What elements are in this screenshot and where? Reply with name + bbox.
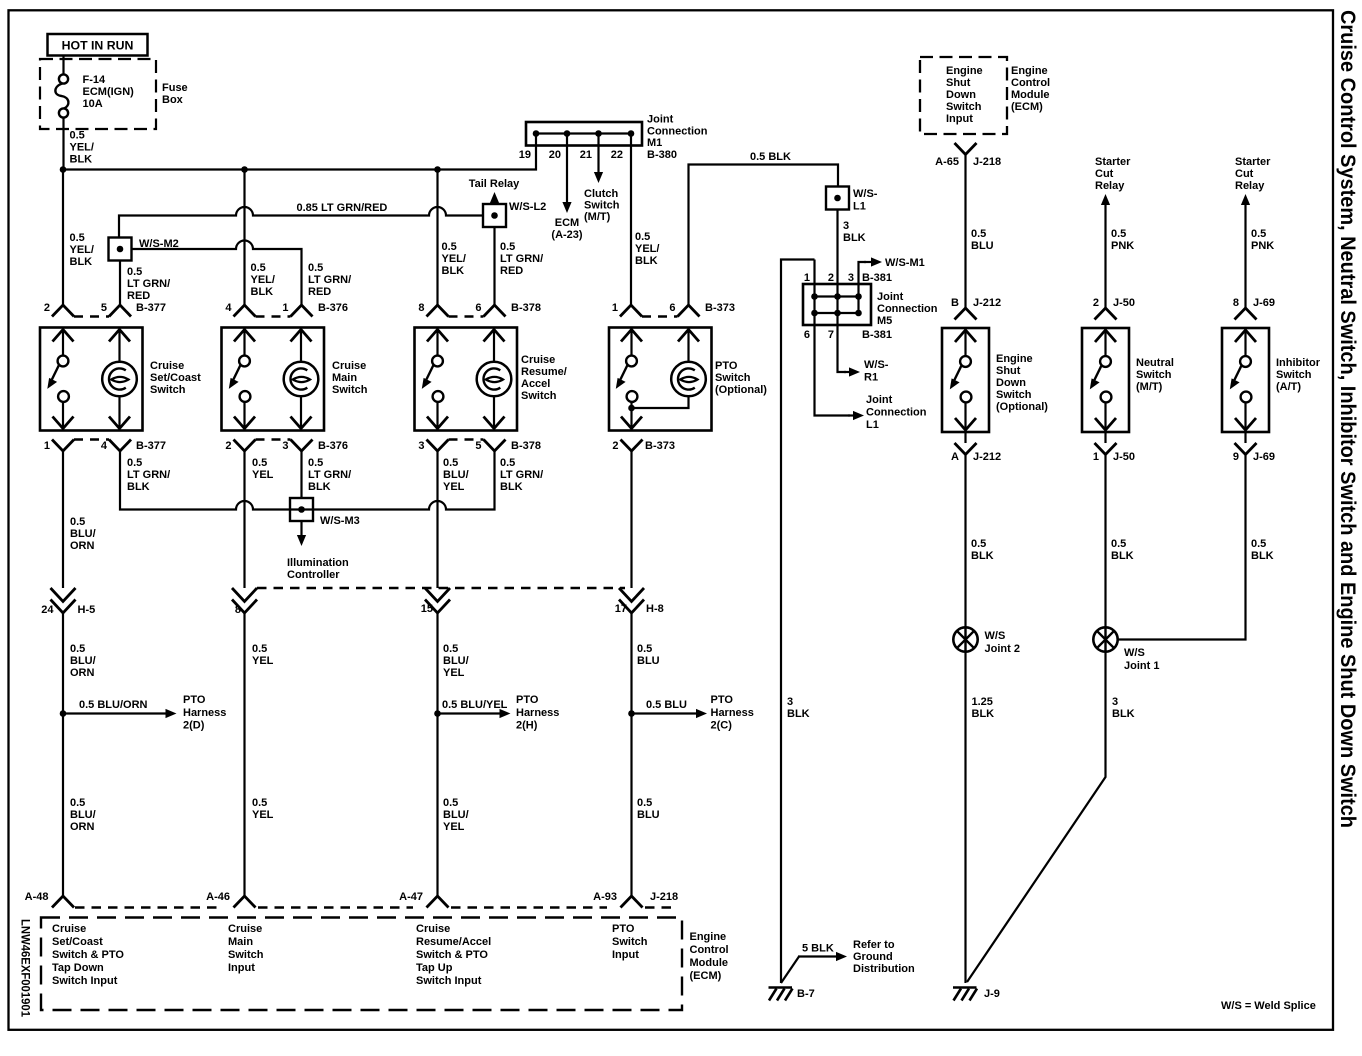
svg-text:RED: RED	[308, 286, 331, 298]
wire joint 1 to ground J-9, 3 BLK	[967, 652, 1106, 983]
wire W/S-L2 to B-378 pin 6, 0.5 LT GRN/RED	[493, 227, 495, 305]
svg-text:BLK: BLK	[1111, 550, 1134, 562]
cruise set/coast switch	[40, 328, 143, 431]
svg-text:A-46: A-46	[206, 891, 230, 903]
svg-text:Joint: Joint	[866, 394, 893, 406]
svg-text:PTO: PTO	[612, 923, 635, 935]
M5 pin 3 to W/S-M1	[855, 293, 862, 300]
svg-text:B-376: B-376	[318, 302, 348, 314]
svg-text:ORN: ORN	[70, 667, 95, 679]
svg-text:J-218: J-218	[973, 156, 1001, 168]
svg-text:LT GRN/: LT GRN/	[127, 469, 170, 481]
svg-text:24: 24	[41, 604, 54, 616]
svg-text:17: 17	[615, 603, 627, 615]
svg-text:0.5: 0.5	[308, 457, 323, 469]
svg-text:Connection: Connection	[866, 407, 927, 419]
svg-text:5 BLK: 5 BLK	[802, 943, 834, 955]
svg-text:0.5: 0.5	[127, 266, 142, 278]
svg-text:0.5: 0.5	[637, 797, 652, 809]
svg-text:2: 2	[612, 440, 618, 452]
svg-text:PNK: PNK	[1111, 240, 1134, 252]
svg-text:A-93: A-93	[593, 891, 617, 903]
wire A J-212 to W/S joint 2, 0.5 BLK	[964, 455, 966, 628]
wire W/S-M2 to B-376 pin 1, 0.5 LT GRN/RED	[132, 241, 302, 306]
svg-text:Module: Module	[1011, 89, 1050, 101]
joint connection M5 B-381	[803, 284, 871, 325]
svg-text:ECM: ECM	[555, 217, 579, 229]
svg-text:(A-23): (A-23)	[551, 229, 583, 241]
svg-text:0.5: 0.5	[308, 262, 323, 274]
svg-text:PTO: PTO	[715, 360, 738, 372]
svg-text:0.5: 0.5	[500, 457, 515, 469]
svg-text:Harness: Harness	[711, 707, 754, 719]
svg-text:J-50: J-50	[1113, 451, 1135, 463]
svg-text:BLK: BLK	[972, 708, 995, 720]
svg-text:BLU/: BLU/	[70, 528, 96, 540]
svg-text:(M/T): (M/T)	[584, 211, 611, 223]
fuse box (dashed)	[40, 59, 156, 129]
svg-text:(ECM): (ECM)	[690, 970, 722, 982]
connector B-377 pins 2,5 (top)	[52, 305, 74, 317]
svg-text:BLK: BLK	[635, 255, 658, 267]
svg-text:Tap Up: Tap Up	[416, 962, 453, 974]
wire B-377 pin 1 to H-5, 0.5 BLU/ORN	[62, 451, 64, 588]
svg-text:22: 22	[611, 149, 623, 161]
svg-text:J-9: J-9	[984, 988, 1000, 1000]
svg-text:YEL: YEL	[443, 481, 465, 493]
svg-text:2(H): 2(H)	[516, 720, 538, 732]
connector B-378 pins 3,5 (bottom)	[427, 440, 449, 452]
svg-text:B-373: B-373	[645, 440, 675, 452]
svg-text:Resume/Accel: Resume/Accel	[416, 936, 491, 948]
svg-text:Relay: Relay	[1095, 180, 1125, 192]
wire bus to B-377 pin 2, 0.5 YEL/BLK	[62, 170, 64, 306]
wire 17/H-8 to A-93, 0.5 BLU	[630, 613, 632, 896]
ground B-7	[769, 986, 793, 989]
svg-text:YEL/: YEL/	[635, 243, 659, 255]
M1 pin 22	[628, 130, 635, 137]
svg-text:Cruise: Cruise	[416, 923, 450, 935]
weld splice W/S-L1	[826, 187, 849, 210]
wire 1 J-50 to W/S joint 1, 0.5 BLK	[1104, 455, 1106, 628]
svg-text:A-47: A-47	[399, 891, 423, 903]
weld splice W/S-M3	[290, 498, 313, 521]
svg-text:J-212: J-212	[973, 451, 1001, 463]
svg-text:1: 1	[282, 302, 288, 314]
svg-text:YEL: YEL	[252, 469, 274, 481]
svg-text:YEL: YEL	[252, 809, 274, 821]
svg-text:BLK: BLK	[500, 481, 523, 493]
svg-text:Tail Relay: Tail Relay	[469, 178, 520, 190]
svg-text:Fuse: Fuse	[162, 82, 188, 94]
svg-text:B-376: B-376	[318, 440, 348, 452]
svg-text:0.85 LT GRN/RED: 0.85 LT GRN/RED	[297, 202, 388, 214]
svg-text:Module: Module	[690, 957, 729, 969]
PTO switch (optional)	[609, 328, 712, 431]
svg-text:1: 1	[612, 302, 618, 314]
svg-text:0.5: 0.5	[70, 232, 85, 244]
svg-text:1: 1	[804, 272, 810, 284]
svg-text:B-377: B-377	[136, 440, 166, 452]
engine shut down switch (optional)	[942, 328, 989, 432]
branch 5 BLK refer to ground distribution	[781, 957, 799, 984]
svg-text:0.5: 0.5	[1251, 228, 1266, 240]
svg-text:BLU/: BLU/	[443, 655, 469, 667]
weld splice joint 1	[1093, 627, 1117, 651]
svg-text:Switch: Switch	[332, 384, 368, 396]
svg-text:Starter: Starter	[1095, 156, 1131, 168]
svg-text:Switch: Switch	[715, 372, 751, 384]
svg-text:Switch & PTO: Switch & PTO	[416, 949, 488, 961]
svg-text:Engine: Engine	[1011, 65, 1048, 77]
svg-text:Switch Input: Switch Input	[52, 975, 118, 987]
svg-text:RED: RED	[127, 290, 150, 302]
svg-text:BLK: BLK	[442, 265, 465, 277]
svg-text:J-69: J-69	[1253, 451, 1275, 463]
svg-text:Main: Main	[332, 372, 357, 384]
svg-text:(Optional): (Optional)	[996, 401, 1048, 413]
svg-text:YEL/: YEL/	[70, 142, 94, 154]
svg-text:RED: RED	[500, 265, 523, 277]
diagram title (vertical)	[1336, 10, 1359, 828]
connector 9 J-69	[1244, 432, 1246, 443]
weld splice W/S-L2	[483, 204, 506, 227]
junction node bus/B-376	[241, 166, 248, 173]
svg-text:2: 2	[828, 272, 834, 284]
joint connection M1 B-380	[526, 122, 642, 146]
svg-text:Inhibitor: Inhibitor	[1276, 357, 1321, 369]
svg-text:B-378: B-378	[511, 302, 541, 314]
svg-text:Control: Control	[690, 944, 729, 956]
svg-text:Distribution: Distribution	[853, 963, 915, 975]
svg-text:BLK: BLK	[971, 550, 994, 562]
wire fuse to bus, 0.5 YEL/BLK	[62, 118, 64, 170]
svg-text:5: 5	[101, 302, 107, 314]
M1 pin 19	[533, 130, 540, 137]
svg-text:ORN: ORN	[70, 540, 95, 552]
svg-text:W/S: W/S	[985, 630, 1006, 642]
svg-text:M5: M5	[877, 315, 892, 327]
wire B-378 pin 3 to connector 15, 0.5 BLU/YEL	[436, 451, 438, 588]
svg-text:W/S-M1: W/S-M1	[885, 257, 925, 269]
svg-text:8: 8	[1233, 297, 1239, 309]
connector B J-212	[955, 308, 977, 320]
svg-text:0.5: 0.5	[443, 457, 458, 469]
svg-text:Connection: Connection	[647, 125, 708, 137]
svg-text:J-212: J-212	[973, 297, 1001, 309]
svg-text:Switch: Switch	[946, 101, 982, 113]
svg-text:B-381: B-381	[862, 272, 892, 284]
svg-text:10A: 10A	[83, 98, 103, 110]
svg-text:J-69: J-69	[1253, 297, 1275, 309]
svg-text:BLK: BLK	[787, 708, 810, 720]
svg-text:0.5: 0.5	[70, 797, 85, 809]
svg-text:YEL: YEL	[252, 655, 274, 667]
wire 9 J-69 to W/S joint 1, 0.5 BLK	[1118, 455, 1246, 640]
svg-text:0.5: 0.5	[252, 797, 267, 809]
svg-text:YEL/: YEL/	[251, 274, 275, 286]
svg-text:Controller: Controller	[287, 569, 340, 581]
svg-text:W/S: W/S	[1124, 647, 1145, 659]
svg-text:Engine: Engine	[946, 65, 983, 77]
svg-text:Switch: Switch	[1136, 369, 1172, 381]
connector A J-212	[964, 432, 966, 443]
junction node at fuse drop	[60, 166, 67, 173]
svg-text:Joint: Joint	[877, 291, 904, 303]
svg-text:Switch: Switch	[612, 936, 648, 948]
svg-text:3: 3	[1112, 696, 1118, 708]
svg-text:Cut: Cut	[1095, 168, 1114, 180]
svg-text:2: 2	[44, 302, 50, 314]
svg-text:0.5 BLU/YEL: 0.5 BLU/YEL	[442, 699, 508, 711]
svg-text:LT GRN/: LT GRN/	[127, 278, 170, 290]
wire 0.5 BLK to W/S-L1	[689, 165, 839, 306]
svg-text:Input: Input	[228, 962, 255, 974]
svg-text:(M/T): (M/T)	[1136, 381, 1163, 393]
wire B-377 pin 4 / B-378 pin 5 branch line	[120, 451, 495, 510]
svg-text:A: A	[951, 451, 959, 463]
svg-text:19: 19	[519, 149, 531, 161]
dashed connector link row	[75, 906, 671, 909]
svg-text:PNK: PNK	[1251, 240, 1274, 252]
document code (vertical)	[19, 919, 33, 1017]
wire W/S-M2 to B-377 pin 5, 0.5 LT GRN/RED	[119, 261, 121, 306]
svg-text:B-377: B-377	[136, 302, 166, 314]
svg-text:BLU/: BLU/	[70, 655, 96, 667]
svg-text:Cruise: Cruise	[332, 360, 366, 372]
harness connector 24 H-5	[51, 588, 76, 602]
connector B-377 pins 1,4 (bottom)	[52, 440, 74, 452]
svg-text:0.5: 0.5	[70, 643, 85, 655]
svg-text:Illumination: Illumination	[287, 557, 349, 569]
svg-text:Down: Down	[946, 89, 976, 101]
svg-text:BLK: BLK	[127, 481, 150, 493]
wire 8 to A-46, 0.5 YEL	[243, 613, 245, 896]
svg-text:LT GRN/: LT GRN/	[308, 274, 351, 286]
svg-text:L1: L1	[866, 419, 879, 431]
starter cut relay (inhibitor)	[1244, 205, 1246, 308]
harness connector 17 H-8	[619, 588, 644, 602]
connector A-93 J-218	[621, 896, 643, 908]
svg-text:A-48: A-48	[25, 891, 49, 903]
svg-text:Set/Coast: Set/Coast	[150, 372, 201, 384]
svg-text:Switch: Switch	[584, 200, 620, 212]
connector 8 J-69	[1235, 308, 1257, 320]
svg-text:H-8: H-8	[646, 603, 664, 615]
svg-text:2: 2	[1093, 297, 1099, 309]
cruise main switch	[222, 328, 325, 431]
svg-text:ECM(IGN): ECM(IGN)	[83, 86, 135, 98]
svg-text:0.5: 0.5	[70, 130, 85, 142]
svg-text:Refer to: Refer to	[853, 939, 895, 951]
svg-text:Joint: Joint	[647, 114, 674, 126]
svg-text:J-50: J-50	[1113, 297, 1135, 309]
svg-text:3: 3	[848, 272, 854, 284]
svg-text:BLK: BLK	[251, 286, 274, 298]
svg-text:ORN: ORN	[70, 821, 95, 833]
svg-text:0.5: 0.5	[500, 241, 515, 253]
harness dashed link 8-15-17	[257, 587, 625, 590]
connector A-48	[52, 896, 74, 908]
weld splice W/S-M2	[109, 238, 132, 261]
connector 1 J-50	[1104, 432, 1106, 443]
junction node bus/B-378	[434, 166, 441, 173]
svg-text:3: 3	[282, 440, 288, 452]
svg-text:Cruise: Cruise	[52, 923, 86, 935]
M5 pin 1	[813, 260, 815, 314]
svg-text:0.5: 0.5	[70, 516, 85, 528]
svg-text:Starter: Starter	[1235, 156, 1271, 168]
svg-text:Joint 2: Joint 2	[985, 643, 1020, 655]
svg-text:Cruise Control System, Neutral: Cruise Control System, Neutral Switch, I…	[1336, 10, 1359, 828]
svg-text:0.5 BLK: 0.5 BLK	[750, 151, 791, 163]
svg-text:B: B	[951, 297, 959, 309]
svg-text:(Optional): (Optional)	[715, 384, 767, 396]
svg-text:8: 8	[418, 302, 424, 314]
svg-text:Shut: Shut	[946, 77, 971, 89]
svg-text:0.5 BLU/ORN: 0.5 BLU/ORN	[79, 699, 148, 711]
svg-text:B-381: B-381	[862, 329, 892, 341]
svg-text:B-378: B-378	[511, 440, 541, 452]
arrow to Tail Relay	[493, 203, 495, 204]
svg-text:Engine: Engine	[996, 353, 1033, 365]
connector B-373 pin 2 (bottom)	[621, 440, 643, 452]
svg-text:B-373: B-373	[705, 302, 735, 314]
svg-text:Cruise: Cruise	[150, 360, 184, 372]
weld splice joint 2	[953, 627, 977, 651]
svg-text:Input: Input	[946, 113, 973, 125]
svg-text:0.5: 0.5	[1111, 228, 1126, 240]
svg-text:Set/Coast: Set/Coast	[52, 936, 103, 948]
svg-text:LT GRN/: LT GRN/	[308, 469, 351, 481]
engine shut down switch input dashed box	[920, 57, 1007, 134]
svg-text:2: 2	[225, 440, 231, 452]
svg-text:YEL: YEL	[443, 667, 465, 679]
svg-text:Resume/: Resume/	[521, 366, 567, 378]
svg-text:W/S-: W/S-	[853, 188, 878, 200]
branch junction to PTO harness 2(D)	[60, 710, 67, 717]
svg-text:Box: Box	[162, 94, 184, 106]
svg-text:YEL/: YEL/	[70, 244, 94, 256]
svg-text:LT GRN/: LT GRN/	[500, 253, 543, 265]
connector B-376 pins 4,1 (top)	[234, 305, 256, 317]
svg-text:L1: L1	[853, 201, 866, 213]
svg-text:9: 9	[1233, 451, 1239, 463]
svg-text:3: 3	[787, 696, 793, 708]
svg-text:B-380: B-380	[647, 149, 677, 161]
starter cut relay (neutral)	[1104, 205, 1106, 308]
svg-text:YEL/: YEL/	[442, 253, 466, 265]
svg-text:Cut: Cut	[1235, 168, 1254, 180]
svg-text:BLU: BLU	[971, 240, 994, 252]
svg-text:W/S-: W/S-	[864, 359, 889, 371]
svg-text:15: 15	[421, 603, 433, 615]
svg-text:0.5: 0.5	[252, 643, 267, 655]
svg-text:Harness: Harness	[183, 707, 226, 719]
svg-text:Cruise: Cruise	[228, 923, 262, 935]
svg-text:BLK: BLK	[1112, 708, 1135, 720]
svg-text:A-65: A-65	[935, 156, 959, 168]
svg-text:0.5: 0.5	[635, 231, 650, 243]
svg-text:20: 20	[549, 149, 561, 161]
svg-text:Switch: Switch	[996, 389, 1032, 401]
svg-text:Switch: Switch	[521, 390, 557, 402]
svg-text:Cruise: Cruise	[521, 354, 555, 366]
svg-text:Engine: Engine	[690, 931, 727, 943]
M1 pin 21	[595, 130, 602, 137]
svg-text:0.5: 0.5	[1251, 538, 1266, 550]
connector A-47	[427, 896, 449, 908]
wire M5 pin1 to ground B-7, 3 BLK	[781, 260, 815, 984]
inhibitor switch (A/T)	[1222, 328, 1269, 432]
svg-text:BLU/: BLU/	[70, 809, 96, 821]
svg-text:BLK: BLK	[308, 481, 331, 493]
svg-text:PTO: PTO	[183, 694, 206, 706]
svg-text:0.5: 0.5	[971, 538, 986, 550]
svg-text:3: 3	[418, 440, 424, 452]
svg-text:5: 5	[475, 440, 481, 452]
wire B-376 pin 3 to W/S-M3, 0.5 LT GRN/BLK	[300, 451, 302, 498]
neutral switch (M/T)	[1082, 328, 1129, 432]
svg-text:Down: Down	[996, 377, 1026, 389]
svg-text:Switch: Switch	[1276, 369, 1312, 381]
svg-text:1: 1	[44, 440, 50, 452]
svg-text:Joint 1: Joint 1	[1124, 660, 1159, 672]
svg-text:0.5: 0.5	[637, 643, 652, 655]
svg-text:0.5: 0.5	[443, 643, 458, 655]
wire B-376 pin 2 to connector 8, 0.5 YEL	[243, 451, 245, 588]
svg-text:7: 7	[828, 329, 834, 341]
connector A-46	[234, 896, 256, 908]
power source label HOT IN RUN	[48, 34, 148, 56]
connector B-376 pins 2,3 (bottom)	[234, 440, 256, 452]
arrow to Illumination Controller	[300, 521, 302, 535]
M5 pin 6 to joint connection L1	[811, 310, 818, 317]
branch junction to PTO harness 2(C)	[628, 710, 635, 717]
svg-text:Switch Input: Switch Input	[416, 975, 482, 987]
svg-text:Relay: Relay	[1235, 180, 1265, 192]
svg-text:Control: Control	[1011, 77, 1050, 89]
svg-text:Switch & PTO: Switch & PTO	[52, 949, 124, 961]
fuse F-14 ECM(IGN) 10A	[62, 56, 64, 75]
svg-text:F-14: F-14	[83, 74, 107, 86]
svg-text:Accel: Accel	[521, 378, 550, 390]
svg-text:6: 6	[804, 329, 810, 341]
svg-text:BLU: BLU	[637, 655, 660, 667]
wire M1 pin 21 to Clutch Switch (M/T)	[597, 146, 599, 173]
svg-text:1: 1	[1093, 451, 1099, 463]
harness connector 15	[425, 588, 450, 602]
branch junction to PTO harness 2(H)	[434, 710, 441, 717]
svg-text:Switch: Switch	[228, 949, 264, 961]
harness connector 8	[232, 588, 257, 602]
connector A-65 J-218	[955, 143, 977, 155]
svg-text:0.5: 0.5	[971, 228, 986, 240]
svg-text:21: 21	[580, 149, 592, 161]
wire bus to B-378 pin 8, 0.5 YEL/BLK	[436, 170, 438, 306]
svg-text:Main: Main	[228, 936, 253, 948]
svg-text:BLK: BLK	[843, 232, 866, 244]
svg-text:6: 6	[475, 302, 481, 314]
svg-text:W/S = Weld Splice: W/S = Weld Splice	[1221, 1000, 1316, 1012]
svg-text:R1: R1	[864, 372, 878, 384]
svg-text:2(C): 2(C)	[711, 720, 733, 732]
svg-text:J-218: J-218	[650, 891, 678, 903]
svg-text:HOT IN RUN: HOT IN RUN	[62, 39, 134, 53]
svg-text:PTO: PTO	[516, 694, 539, 706]
wire 0.85 LT GRN/RED	[119, 207, 483, 238]
svg-text:0.5: 0.5	[442, 241, 457, 253]
